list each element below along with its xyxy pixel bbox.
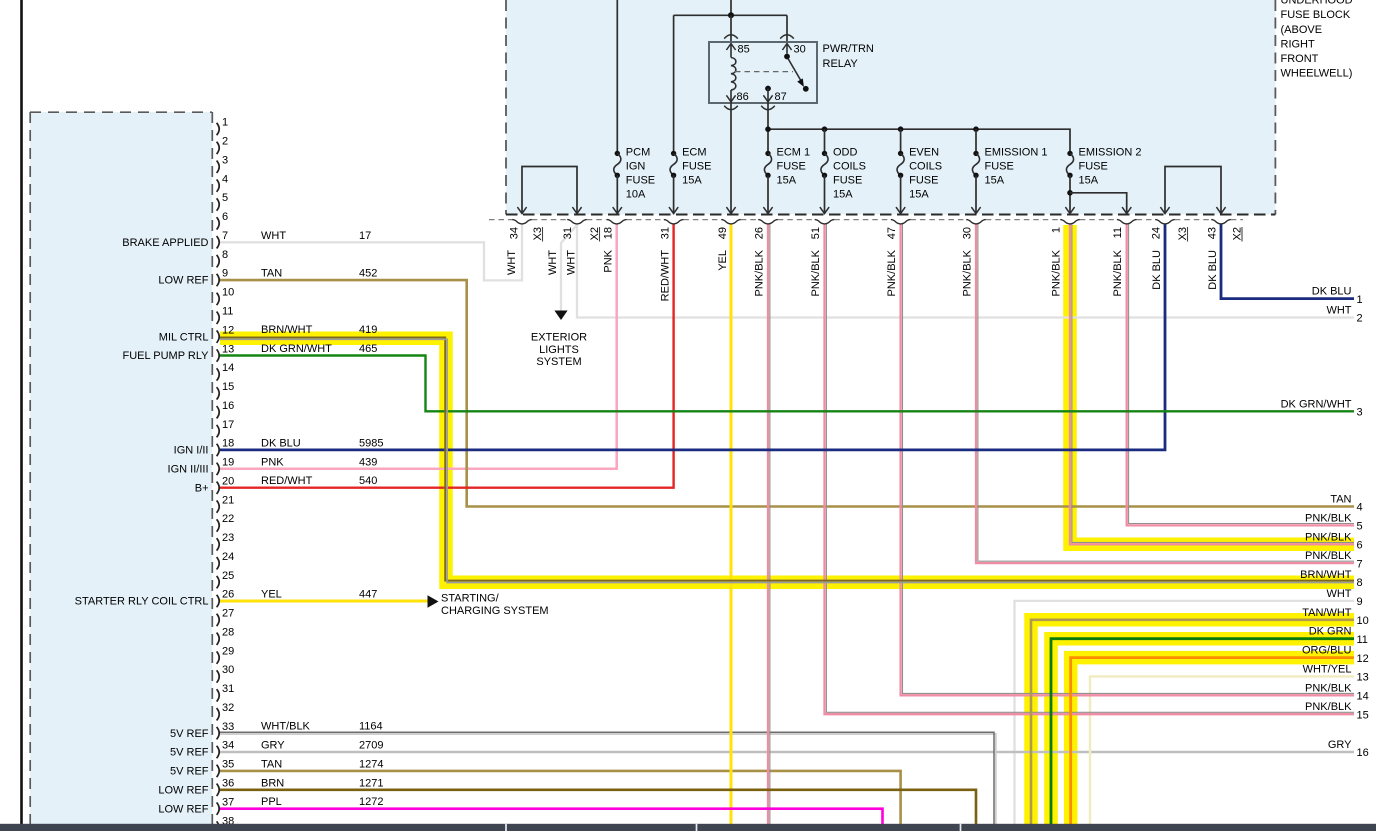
svg-text:FUSE: FUSE xyxy=(682,161,711,173)
feed bus to relay pins 85/30 and ECM fuse xyxy=(674,14,787,16)
PCM pin 6 xyxy=(217,217,220,229)
svg-text:20: 20 xyxy=(222,475,234,487)
relay pin 30 dot xyxy=(784,54,790,60)
svg-text:PPL: PPL xyxy=(261,796,282,808)
relay pin 86 wire and arrow xyxy=(730,90,732,103)
svg-text:BRN/WHT: BRN/WHT xyxy=(1300,569,1352,581)
wire BRN 1271 from PCM pin 36 xyxy=(220,790,976,827)
svg-text:DK GRN/WHT: DK GRN/WHT xyxy=(261,343,332,355)
svg-text:PNK/BLK: PNK/BLK xyxy=(962,249,974,296)
svg-text:13: 13 xyxy=(222,343,234,355)
fuse EMISSION 1 FUSE 15A xyxy=(973,151,978,156)
wire relay pin 86 to fuse block pin 49 xyxy=(730,103,732,213)
wire PPL 1272 from PCM pin 37 xyxy=(220,809,883,827)
PCM pin 23 xyxy=(217,538,220,550)
PCM pin 32 xyxy=(217,708,220,720)
svg-text:MIL CTRL: MIL CTRL xyxy=(159,331,209,343)
PCM pin 27 xyxy=(217,614,220,626)
svg-text:PNK/BLK: PNK/BLK xyxy=(1305,531,1352,543)
svg-text:LIGHTS: LIGHTS xyxy=(539,344,579,356)
svg-text:87: 87 xyxy=(775,91,787,103)
relay pin 30 arrow xyxy=(782,44,791,51)
PCM pin 7 xyxy=(217,236,220,248)
svg-text:FUSE: FUSE xyxy=(909,175,938,187)
relay pin 87 wire and arrow xyxy=(767,89,769,104)
svg-text:WHT/YEL: WHT/YEL xyxy=(1303,663,1352,675)
wire relay pin 87 to fuse bus xyxy=(767,103,769,153)
svg-text:8: 8 xyxy=(222,249,228,261)
feed wire to relay junction xyxy=(730,0,732,15)
connector terminal dip pin 31 xyxy=(664,220,684,224)
svg-text:439: 439 xyxy=(359,456,377,468)
svg-text:BRN/WHT: BRN/WHT xyxy=(261,324,313,336)
svg-text:RELAY: RELAY xyxy=(823,58,859,70)
wire PNK/BLK from fuse block pin 1 to exit 6 (highlighted) xyxy=(1070,224,1354,544)
wire WHT branch to exterior lights system xyxy=(561,225,577,311)
wire BRN/WHT 419 (grey part) xyxy=(220,339,1354,582)
svg-text:PNK/BLK: PNK/BLK xyxy=(1112,249,1124,296)
wire WHT from fuse block pin 31 X2 to exit 2 xyxy=(577,224,1354,318)
svg-text:FUEL PUMP RLY: FUEL PUMP RLY xyxy=(123,350,210,362)
junction dot at relay feed xyxy=(728,12,734,18)
PCM pin 10 xyxy=(217,293,220,305)
svg-text:30: 30 xyxy=(794,44,806,56)
PCM box top dashed border xyxy=(30,111,212,113)
PCM pin 35 xyxy=(217,765,220,777)
svg-text:1271: 1271 xyxy=(359,777,383,789)
PCM pin 3 xyxy=(217,161,220,173)
svg-text:22: 22 xyxy=(222,513,234,525)
svg-text:LOW REF: LOW REF xyxy=(158,275,208,287)
svg-text:SYSTEM: SYSTEM xyxy=(536,356,581,368)
svg-text:WHEELWELL): WHEELWELL) xyxy=(1281,68,1353,80)
svg-text:27: 27 xyxy=(222,608,234,620)
svg-text:18: 18 xyxy=(222,438,234,450)
connector terminal dip pin 47 xyxy=(891,220,911,224)
svg-text:47: 47 xyxy=(886,227,898,239)
PCM pin 20 xyxy=(217,482,220,494)
svg-text:4: 4 xyxy=(222,173,228,185)
PCM pin 38 xyxy=(217,821,220,831)
connector terminal dip pin 11 xyxy=(1117,220,1137,224)
relay connector arc above pin 85 xyxy=(724,35,738,39)
PCM pin 26 xyxy=(217,595,220,607)
svg-text:26: 26 xyxy=(754,227,766,239)
svg-text:COILS: COILS xyxy=(909,161,942,173)
wire bus to EMISSION 1 fuse xyxy=(975,129,977,153)
svg-text:34: 34 xyxy=(222,740,234,752)
svg-text:PNK/BLK: PNK/BLK xyxy=(886,249,898,296)
svg-text:STARTING/: STARTING/ xyxy=(441,593,500,605)
PCM pin 17 xyxy=(217,425,220,437)
svg-text:1272: 1272 xyxy=(359,796,383,808)
PCM pin 30 xyxy=(217,670,220,682)
wire bus to EVEN COILS fuse xyxy=(900,129,902,153)
PCM pin 24 xyxy=(217,557,220,569)
PCM pin 33 xyxy=(217,727,220,739)
svg-text:PNK/BLK: PNK/BLK xyxy=(1305,701,1352,713)
svg-text:10A: 10A xyxy=(626,189,646,201)
svg-text:24: 24 xyxy=(1151,227,1163,239)
wire WHT/YEL exit 13 xyxy=(1090,676,1354,827)
svg-text:DK GRN: DK GRN xyxy=(1309,626,1352,638)
svg-text:YEL: YEL xyxy=(717,250,729,271)
arrow to exterior lights system xyxy=(554,311,567,321)
svg-text:24: 24 xyxy=(222,551,234,563)
wire PNK/BLK pin 47 stripe xyxy=(903,224,1355,693)
wire TAN 452 from PCM pin 9 to exit 4 xyxy=(220,280,1354,506)
PCM pin 4 xyxy=(217,179,220,191)
svg-text:465: 465 xyxy=(359,343,377,355)
wire TAN/WHT exit 10 (highlighted) xyxy=(1031,620,1354,827)
svg-text:12: 12 xyxy=(1357,653,1369,665)
svg-text:10: 10 xyxy=(222,287,234,299)
svg-text:5: 5 xyxy=(1357,521,1363,533)
svg-text:FUSE: FUSE xyxy=(1079,161,1108,173)
bracket wire pins 34/31 (X3-X2) xyxy=(522,167,577,214)
svg-text:FUSE: FUSE xyxy=(985,161,1014,173)
svg-text:15A: 15A xyxy=(682,175,702,187)
connector terminal dip pin 30 xyxy=(966,220,986,224)
svg-text:5985: 5985 xyxy=(359,437,383,449)
svg-text:15: 15 xyxy=(222,381,234,393)
svg-text:21: 21 xyxy=(222,494,234,506)
PCM pin 25 xyxy=(217,576,220,588)
PCM pin 19 xyxy=(217,463,220,475)
bus junction dot at ECM 1 fuse xyxy=(765,126,771,132)
wire DK GRN exit 11 (highlighted) xyxy=(1051,639,1354,827)
svg-text:7: 7 xyxy=(1357,558,1363,570)
svg-text:3: 3 xyxy=(1357,407,1363,419)
relay coil xyxy=(731,58,736,91)
svg-text:7: 7 xyxy=(222,230,228,242)
svg-text:31: 31 xyxy=(660,227,672,239)
relay connector arc below pin 86 xyxy=(724,106,738,110)
svg-text:RIGHT: RIGHT xyxy=(1281,38,1316,50)
svg-text:3: 3 xyxy=(222,154,228,166)
svg-text:11: 11 xyxy=(1112,227,1124,238)
svg-text:ECM: ECM xyxy=(682,147,706,159)
connector terminal dip pin 31 xyxy=(567,220,587,224)
svg-text:FRONT: FRONT xyxy=(1281,53,1319,65)
connector terminal dip pin 51 xyxy=(815,220,835,224)
svg-text:2: 2 xyxy=(1357,313,1363,325)
underhood fuse block fill xyxy=(506,0,1276,215)
bus junction dot at EVEN COILS fuse xyxy=(898,126,904,132)
wire PNK/BLK from fuse block pin 47 to exit 14 xyxy=(901,224,1354,695)
svg-text:86: 86 xyxy=(737,91,749,103)
PCM pin 13 xyxy=(217,349,220,361)
svg-text:EMISSION 1: EMISSION 1 xyxy=(985,147,1048,159)
connector terminal dip pin 34 xyxy=(512,220,532,224)
wire PNK 439 from fuse block pin 18 to PCM pin 19 xyxy=(220,224,617,469)
relay pin 85 arrow xyxy=(726,44,735,51)
svg-text:FUSE: FUSE xyxy=(833,175,862,187)
relay switch contact dot xyxy=(803,86,809,92)
connector terminal dip pin 1 xyxy=(1060,220,1080,224)
svg-text:LOW REF: LOW REF xyxy=(158,803,208,815)
wire DK BLU 5985 from fuse block pin 24 to PCM pin 18 xyxy=(220,224,1165,450)
PCM box left dashed border xyxy=(29,112,31,824)
svg-text:DK BLU: DK BLU xyxy=(1312,286,1352,298)
svg-text:5V REF: 5V REF xyxy=(170,766,209,778)
svg-text:31: 31 xyxy=(222,683,234,695)
svg-text:WHT/BLK: WHT/BLK xyxy=(261,721,311,733)
svg-text:WHT: WHT xyxy=(506,250,518,275)
connector terminal dip pin 18 xyxy=(607,220,627,224)
svg-text:6: 6 xyxy=(222,211,228,223)
svg-text:YEL: YEL xyxy=(261,589,282,601)
fuse block bottom dashed border xyxy=(506,214,1275,216)
wire to ECM fuse xyxy=(673,15,675,153)
connector terminal dip pin 49 xyxy=(721,220,741,224)
svg-text:ECM 1: ECM 1 xyxy=(777,147,811,159)
left frame line xyxy=(20,0,23,831)
connector terminal dip pin 24 xyxy=(1155,220,1175,224)
svg-text:PWR/TRN: PWR/TRN xyxy=(823,43,874,55)
fuse PCM IGN FUSE 10A xyxy=(615,151,620,156)
wire bus to ODD COILS fuse xyxy=(824,129,826,153)
svg-text:CHARGING SYSTEM: CHARGING SYSTEM xyxy=(441,605,549,617)
svg-text:DK GRN/WHT: DK GRN/WHT xyxy=(1281,398,1352,410)
wire PNK/BLK from fuse block pin 30 to exit 7 xyxy=(976,224,1354,563)
svg-text:TAN: TAN xyxy=(1330,494,1351,506)
svg-text:9: 9 xyxy=(222,268,228,280)
fuse block left dashed border xyxy=(505,0,507,215)
svg-text:ORG/BLU: ORG/BLU xyxy=(1302,645,1352,657)
svg-text:1: 1 xyxy=(1357,294,1363,306)
svg-text:26: 26 xyxy=(222,589,234,601)
connector terminal dip pin 26 xyxy=(758,220,778,224)
PCM pin 31 xyxy=(217,689,220,701)
svg-text:447: 447 xyxy=(359,589,377,601)
svg-text:FUSE: FUSE xyxy=(626,175,655,187)
svg-text:COILS: COILS xyxy=(833,161,866,173)
svg-text:PNK/BLK: PNK/BLK xyxy=(1051,249,1063,296)
svg-text:TAN: TAN xyxy=(261,758,282,770)
svg-text:5V REF: 5V REF xyxy=(170,747,209,759)
wire PNK/BLK pin 11 stripe xyxy=(1129,224,1354,524)
svg-text:25: 25 xyxy=(222,570,234,582)
svg-text:DK BLU: DK BLU xyxy=(261,437,301,449)
relay dashed actuation line xyxy=(735,71,793,73)
svg-text:PNK: PNK xyxy=(603,249,615,272)
PWR/TRN relay box xyxy=(709,42,817,103)
svg-text:15A: 15A xyxy=(909,189,929,201)
svg-text:EMISSION 2: EMISSION 2 xyxy=(1079,147,1142,159)
fuse EVEN COILS FUSE 15A xyxy=(898,151,903,156)
svg-text:IGN: IGN xyxy=(626,161,646,173)
svg-text:2: 2 xyxy=(222,136,228,148)
PCM pin 11 xyxy=(217,312,220,324)
wire EMISSION 2 branch to pin 11 xyxy=(1070,193,1127,213)
fuse ECM FUSE 15A xyxy=(671,151,676,156)
svg-text:540: 540 xyxy=(359,475,377,487)
svg-text:BRAKE APPLIED: BRAKE APPLIED xyxy=(122,237,208,249)
fuse EMISSION 2 FUSE 15A xyxy=(1067,151,1072,156)
wire WHT/BLK 1164 from PCM pin 33 (dark stripe) xyxy=(220,732,994,827)
svg-text:34: 34 xyxy=(509,227,521,239)
PCM pin 15 xyxy=(217,387,220,399)
svg-text:EXTERIOR: EXTERIOR xyxy=(531,332,587,344)
svg-text:28: 28 xyxy=(222,626,234,638)
svg-text:UNDERHOOD: UNDERHOOD xyxy=(1281,0,1353,7)
svg-text:15A: 15A xyxy=(1079,175,1099,187)
svg-text:IGN I/II: IGN I/II xyxy=(174,445,209,457)
svg-text:DK BLU: DK BLU xyxy=(1151,250,1163,290)
svg-text:B+: B+ xyxy=(195,482,209,494)
svg-text:(ABOVE: (ABOVE xyxy=(1281,24,1323,36)
wire TAN 1274 from PCM pin 35 xyxy=(220,771,901,827)
PCM pin 37 xyxy=(217,802,220,814)
svg-text:2709: 2709 xyxy=(359,740,383,752)
svg-text:51: 51 xyxy=(810,227,822,239)
PCM pin 22 xyxy=(217,519,220,531)
PCM pin 18 xyxy=(217,444,220,456)
PCM pin 1 xyxy=(217,123,220,135)
fuse ECM 1 FUSE 15A xyxy=(765,151,770,156)
svg-text:PCM: PCM xyxy=(626,147,650,159)
wire PNK/BLK from fuse block pin 26 (down to module) xyxy=(767,224,769,827)
svg-text:PNK/BLK: PNK/BLK xyxy=(754,249,766,296)
bus junction dot at EMISSION 1 fuse xyxy=(973,126,979,132)
svg-text:29: 29 xyxy=(222,645,234,657)
bus junction dot at ODD COILS fuse xyxy=(822,126,828,132)
svg-text:5V REF: 5V REF xyxy=(170,728,209,740)
svg-text:85: 85 xyxy=(738,44,750,56)
svg-text:33: 33 xyxy=(222,721,234,733)
feed wire to PCM IGN fuse xyxy=(616,0,618,153)
wire YEL 447 from PCM pin 26 to starting/charging system xyxy=(220,600,428,603)
connector terminal dip pin 43 xyxy=(1211,220,1231,224)
svg-text:31: 31 xyxy=(562,227,574,239)
svg-text:PNK: PNK xyxy=(261,456,284,468)
svg-text:WHT: WHT xyxy=(547,250,559,275)
PCM pin 29 xyxy=(217,651,220,663)
wire DK GRN/WHT 465 from PCM pin 13 to exit 3 xyxy=(220,356,1354,412)
PCM pin 14 xyxy=(217,368,220,380)
svg-text:8: 8 xyxy=(1357,577,1363,589)
wire WHT 17 from PCM pin 7 to fuse block pin 34 xyxy=(220,224,522,280)
bottom module strip xyxy=(0,824,1376,831)
fuse block right dashed border xyxy=(1274,0,1276,215)
svg-text:TAN: TAN xyxy=(261,268,282,280)
svg-text:1164: 1164 xyxy=(359,721,383,733)
PCM pin 12 xyxy=(217,330,220,342)
svg-text:15A: 15A xyxy=(777,175,797,187)
wire YEL 49 from relay pin 86 xyxy=(730,224,733,827)
svg-text:10: 10 xyxy=(1357,615,1369,627)
relay switch blade xyxy=(788,59,802,83)
relay connector arc above pin 30 xyxy=(780,35,794,39)
svg-text:30: 30 xyxy=(962,227,974,239)
svg-text:FUSE BLOCK: FUSE BLOCK xyxy=(1281,9,1351,21)
PCM pin 5 xyxy=(217,198,220,210)
svg-text:PNK/BLK: PNK/BLK xyxy=(1305,682,1352,694)
svg-text:9: 9 xyxy=(1357,596,1363,608)
svg-text:23: 23 xyxy=(222,532,234,544)
svg-text:43: 43 xyxy=(1207,227,1219,239)
svg-text:36: 36 xyxy=(222,778,234,790)
PCM pin 36 xyxy=(217,784,220,796)
svg-text:1274: 1274 xyxy=(359,758,383,770)
svg-text:37: 37 xyxy=(222,796,234,808)
highlight band TAN/WHT circuit xyxy=(1031,620,1354,827)
PCM pin 2 xyxy=(217,142,220,154)
wire DK BLU from fuse block pin 43 to exit 1 xyxy=(1221,224,1354,299)
wire WHT/BLK 1164 from PCM pin 33 (light part) xyxy=(220,734,996,827)
wire RED/WHT 540 from fuse block pin 31 to PCM pin 20 xyxy=(220,224,674,488)
svg-text:11: 11 xyxy=(222,306,233,318)
PCM connector box fill xyxy=(30,112,212,824)
in-line connector dashed row xyxy=(489,219,512,221)
svg-text:5: 5 xyxy=(222,192,228,204)
svg-text:PNK/BLK: PNK/BLK xyxy=(1305,512,1352,524)
svg-text:15A: 15A xyxy=(985,175,1005,187)
wire to relay pin 85 xyxy=(730,15,732,42)
svg-text:14: 14 xyxy=(222,362,234,374)
bracket wire pins 24/43 (X3-X2) xyxy=(1165,167,1221,214)
relay connector arc below pin 87 xyxy=(761,106,775,110)
PCM pin 8 xyxy=(217,255,220,267)
wire GRY 2709 from PCM pin 34 to exit 16 xyxy=(220,751,1354,753)
svg-text:BRN: BRN xyxy=(261,777,284,789)
svg-text:14: 14 xyxy=(1357,691,1369,703)
svg-text:GRY: GRY xyxy=(1328,739,1352,751)
svg-text:17: 17 xyxy=(222,419,234,431)
PCM box right dashed border xyxy=(211,112,213,824)
svg-text:GRY: GRY xyxy=(261,740,285,752)
highlight band DK GRN circuit xyxy=(1051,639,1354,827)
svg-text:12: 12 xyxy=(222,324,234,336)
svg-text:DK BLU: DK BLU xyxy=(1207,250,1219,290)
wire PNK/BLK from fuse block pin 11 to exit 5 xyxy=(1127,224,1354,525)
wire BRN/WHT 419 from PCM pin 12 to exit 8 (brown part, highlighted) xyxy=(220,337,1354,580)
PCM pin 9 xyxy=(217,274,220,286)
svg-text:WHT: WHT xyxy=(1326,588,1351,600)
svg-text:49: 49 xyxy=(717,227,729,239)
fuse bus from relay pin 87 xyxy=(768,129,1070,153)
wire WHT exit 9 from bottom module xyxy=(1015,601,1355,827)
svg-text:419: 419 xyxy=(359,324,377,336)
svg-text:1: 1 xyxy=(222,117,228,129)
svg-text:IGN II/III: IGN II/III xyxy=(168,463,209,475)
svg-text:19: 19 xyxy=(222,457,234,469)
wire ORG/BLU exit 12 (highlighted) xyxy=(1071,658,1354,827)
wire PNK/BLK pin 30 stripe xyxy=(978,224,1354,561)
svg-text:PNK/BLK: PNK/BLK xyxy=(1305,550,1352,562)
svg-text:PNK/BLK: PNK/BLK xyxy=(810,249,822,296)
junction dot below EMISSION 2 fuse xyxy=(1067,190,1073,196)
svg-text:11: 11 xyxy=(1357,634,1368,646)
svg-text:30: 30 xyxy=(222,664,234,676)
svg-text:4: 4 xyxy=(1357,502,1363,514)
svg-text:1: 1 xyxy=(1051,227,1063,233)
wire to relay pin 30 xyxy=(786,15,788,42)
PCM pin 21 xyxy=(217,500,220,512)
highlight band ORG/BLU circuit xyxy=(1071,658,1354,827)
wire PNK/BLK pin 1 stripe xyxy=(1072,224,1354,542)
svg-text:STARTER RLY COIL CTRL: STARTER RLY COIL CTRL xyxy=(75,596,209,608)
svg-text:LOW REF: LOW REF xyxy=(158,784,208,796)
svg-text:35: 35 xyxy=(222,759,234,771)
svg-text:RED/WHT: RED/WHT xyxy=(660,250,672,302)
svg-text:FUSE: FUSE xyxy=(777,161,806,173)
highlight band EMISSION 2 PNK/BLK circuit xyxy=(1070,225,1354,544)
svg-text:15: 15 xyxy=(1357,709,1369,721)
wire PNK/BLK pin 26 stripe xyxy=(769,224,771,827)
svg-text:WHT: WHT xyxy=(261,230,286,242)
